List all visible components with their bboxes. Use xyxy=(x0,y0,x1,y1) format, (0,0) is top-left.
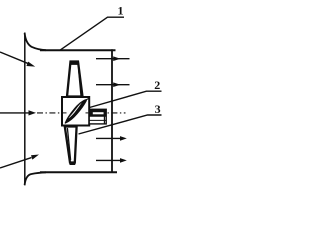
hub blade profile xyxy=(65,100,86,123)
outflow arrow A2 xyxy=(96,82,130,87)
svg-text:3: 3 xyxy=(155,102,161,116)
casing top wall xyxy=(40,49,116,51)
svg-text:2: 2 xyxy=(154,78,160,92)
inlet plane line xyxy=(24,33,26,186)
label 2 leader xyxy=(90,91,162,107)
shaft xyxy=(89,109,106,124)
inlet collector bottom flare xyxy=(25,172,46,185)
inflow line bottom-left xyxy=(0,158,32,168)
label 1 leader xyxy=(60,17,124,50)
axis dash-dot inside hub xyxy=(63,112,67,114)
inflow line top-left xyxy=(0,52,29,64)
axis inflow arrow xyxy=(0,112,29,114)
casing right wall (outlet plane) xyxy=(111,49,113,173)
hub box xyxy=(62,97,89,126)
upper blade xyxy=(67,61,83,97)
outflow arrow A1 xyxy=(96,56,130,61)
outflow arrow A3 xyxy=(96,136,127,141)
axis dash-dot centerline xyxy=(37,112,126,114)
svg-text:1: 1 xyxy=(118,4,124,18)
inlet collector top flare xyxy=(25,33,46,50)
label 3 leader xyxy=(79,115,162,134)
lower blade xyxy=(65,127,77,166)
casing bottom wall xyxy=(40,171,117,173)
hub profile tip line xyxy=(86,98,89,100)
outflow arrow A4 xyxy=(96,158,127,163)
